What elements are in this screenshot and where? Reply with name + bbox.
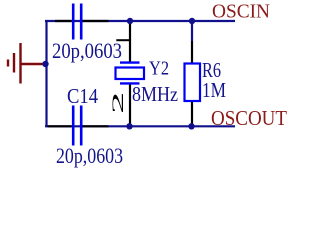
svg-text:C14: C14	[67, 84, 98, 108]
value label 20p,0603 (top capacitor)	[52, 38, 122, 63]
capacitor C14	[48, 106, 109, 146]
svg-text:OSCOUT: OSCOUT	[211, 106, 287, 130]
svg-text:OSCIN: OSCIN	[212, 1, 270, 23]
svg-text:2: 2	[109, 92, 127, 114]
value label 1M	[202, 78, 226, 102]
junction bottom wire / crystal pin 2	[126, 123, 132, 129]
resistor R6	[185, 41, 201, 126]
ground	[8, 43, 45, 84]
svg-text:20p,0603: 20p,0603	[56, 143, 123, 168]
wire R6 top stub	[191, 21, 193, 41]
junction bottom wire / R6	[188, 123, 194, 129]
junction at ground / left wire	[42, 61, 48, 67]
svg-text:8MHz: 8MHz	[132, 82, 178, 106]
wire bottom horizontal (OSCOUT net)	[45, 125, 235, 127]
svg-text:1M: 1M	[202, 78, 226, 102]
pin number 2 (crystal pin 2)	[109, 92, 127, 114]
wire top horizontal (OSCIN net)	[45, 20, 235, 22]
pin number 1 (crystal pin 1)	[116, 40, 131, 44]
capacitor top (20p,0603)	[55, 4, 109, 40]
value label 20p,0603 (C14)	[56, 143, 123, 168]
svg-text:20p,0603: 20p,0603	[52, 38, 122, 63]
crystal Y2	[116, 21, 145, 126]
node OSCOUT	[211, 106, 287, 130]
designator C14	[67, 84, 98, 108]
wire left vertical	[45, 20, 47, 127]
designator Y2	[149, 58, 169, 80]
designator R6	[202, 58, 221, 82]
value label 8MHz	[132, 82, 178, 106]
node OSCIN	[212, 1, 270, 23]
svg-text:Y2: Y2	[149, 58, 169, 80]
junction top wire / R6	[189, 18, 195, 24]
junction top wire / crystal pin 1	[127, 18, 133, 24]
